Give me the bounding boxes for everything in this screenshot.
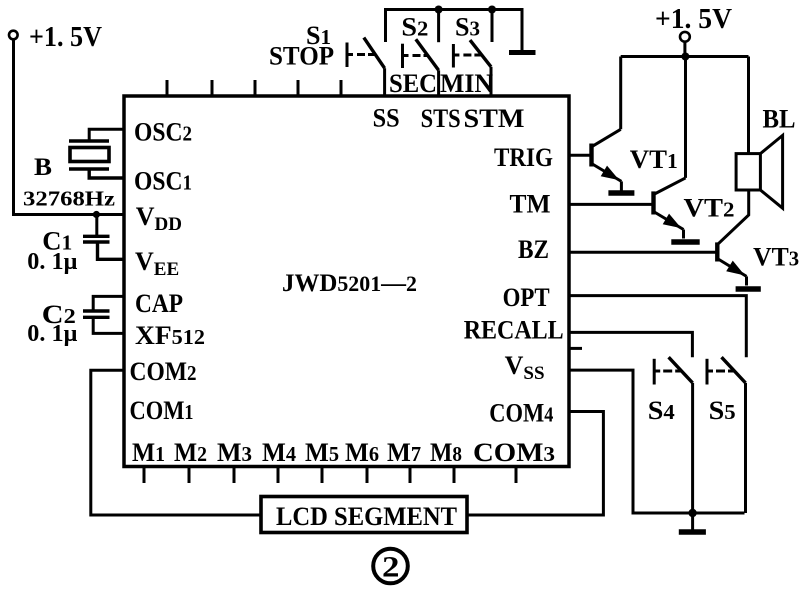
svg-text:M5: M5 [305,438,339,467]
svg-text:XF512: XF512 [135,321,205,350]
transistor VT1 [569,129,678,190]
node junction S2 top [435,6,443,14]
node junction right rail [681,53,689,61]
node junction C1 top [93,211,100,218]
pin ticks top of IC [167,80,341,96]
svg-text:COM3: COM3 [473,438,555,467]
wire grounded rail over S2 S3 [386,10,523,51]
svg-text:S4: S4 [648,396,676,425]
ground top-right of rail [509,50,536,55]
svg-text:M6: M6 [345,438,379,467]
svg-text:S3: S3 [455,12,480,41]
svg-text:B: B [34,154,52,181]
switch S5 [707,357,746,513]
svg-text:TRIG: TRIG [494,143,553,172]
wire BL top branch [747,57,750,154]
IC pin labels right [464,143,564,428]
ground VT1 emitter [608,190,634,195]
svg-text:BL: BL [763,104,796,133]
node +1.5V left terminal [9,22,102,53]
node +1.5V right terminal [655,4,732,42]
pin ticks bottom of IC [144,467,516,484]
LCD SEGMENT block [261,497,467,533]
svg-text:0. 1μ: 0. 1μ [27,321,77,347]
IC U1 JWD5201-2 body [124,96,569,467]
wire OPT to S5 [569,296,746,358]
IC pin labels top right [373,103,525,133]
svg-text:TM: TM [510,189,551,218]
svg-text:0. 1μ: 0. 1μ [27,249,77,275]
ground bottom S4/S5 [679,513,706,532]
svg-text:COM4: COM4 [489,399,553,428]
figure number 2 circled [373,549,408,584]
svg-text:2: 2 [382,551,400,584]
IC pin labels left [130,118,206,426]
crystal B 32768Hz [23,129,124,210]
svg-text:VT1: VT1 [630,145,678,174]
svg-text:OSC2: OSC2 [134,118,192,147]
wire right +1.5V rail [621,42,749,57]
capacitor C2 [27,296,124,347]
wire VT1 collector branch [619,57,622,130]
svg-text:OPT: OPT [503,283,550,312]
svg-text:S5: S5 [709,396,736,425]
node junction S3 top [488,6,496,14]
svg-text:LCD SEGMENT: LCD SEGMENT [276,502,457,531]
capacitor C1 [27,215,124,276]
transistor VT3 [569,190,799,286]
svg-text:M7: M7 [387,438,421,467]
wire left +1.5V rail to VDD [14,40,125,215]
svg-text:COM1: COM1 [130,396,194,425]
svg-text:JWD5201—2: JWD5201—2 [282,270,417,297]
svg-text:MIN: MIN [440,69,493,98]
switch S4 [648,357,693,513]
svg-text:+1. 5V: +1. 5V [29,22,102,53]
svg-text:SEC: SEC [389,69,437,98]
pin stub below RECALL [569,347,582,350]
wire VSS to bottom rail [569,370,745,513]
svg-text:RECALL: RECALL [464,316,564,345]
svg-text:M3: M3 [217,438,252,467]
wire VT2 collector branch [684,57,687,178]
svg-text:STM: STM [464,104,525,133]
switch S1 STOP [269,21,385,96]
ground VT2 emitter [671,239,699,244]
svg-text:32768Hz: 32768Hz [23,187,115,211]
svg-text:SS: SS [373,103,400,132]
svg-text:M8: M8 [430,438,462,467]
svg-text:BZ: BZ [518,235,549,264]
svg-text:OSC1: OSC1 [134,167,192,196]
ground VT3 emitter [736,286,761,291]
IC pin labels bottom row M1-M8 COM3 [132,438,555,467]
svg-text:M2: M2 [174,438,207,467]
switch S3 MIN [440,10,493,99]
svg-text:M4: M4 [262,438,296,467]
node junction S4 bottom [688,509,696,517]
svg-text:VT3: VT3 [753,242,799,271]
wire COM4 to LCD SEGMENT [466,412,603,516]
svg-text:STOP: STOP [269,42,334,71]
speaker BL [736,104,795,208]
wire COM2 to LCD SEGMENT [91,370,262,515]
switch S2 SEC [389,10,439,99]
svg-text:M1: M1 [132,438,165,467]
transistor VT2 [569,178,735,239]
svg-text:STS: STS [421,104,461,133]
svg-text:+1. 5V: +1. 5V [655,4,732,35]
svg-text:S2: S2 [401,12,428,41]
svg-text:VT2: VT2 [684,193,735,222]
svg-text:COM2: COM2 [130,357,197,386]
svg-text:CAP: CAP [135,289,183,318]
wire RECALL to S4 [569,332,692,357]
